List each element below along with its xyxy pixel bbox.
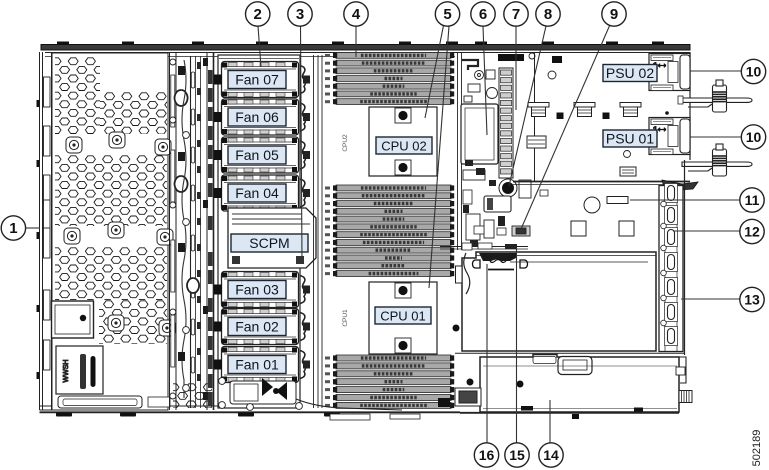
fan module Fan 03 (214, 272, 310, 308)
riser cable s-curve (464, 253, 470, 294)
leader 7 (515, 26, 517, 110)
fan module Fan 05 (214, 137, 310, 173)
extra dark mid bits (463, 160, 517, 249)
leader 1 (26, 227, 40, 229)
left wall slot rects (44, 77, 51, 370)
front panel cable connectors bottom (230, 381, 296, 404)
bay divider line (455, 352, 684, 354)
leader 13 (681, 298, 740, 300)
board right edge (458, 53, 462, 250)
L bracket right (676, 357, 686, 383)
mid-right board hole (584, 197, 600, 213)
leader 10b (690, 136, 741, 138)
callout 9 (602, 2, 626, 26)
PSU 01 body and handle (649, 118, 690, 155)
callout 3 (288, 2, 312, 26)
fan tray outline (218, 55, 300, 408)
left wall nubs (37, 100, 40, 379)
callout 2 (246, 2, 270, 26)
tray bottom screws (219, 378, 303, 411)
callout 6 (471, 2, 495, 26)
riser latch (callout 16 target) (473, 253, 528, 270)
lower bay outline (480, 355, 679, 413)
square outlines (571, 221, 634, 236)
svg-text:16: 16 (479, 447, 495, 463)
rear connector rail (659, 186, 683, 352)
hex vent panel outline (52, 53, 168, 410)
supercap module (461, 104, 498, 164)
svg-text:9: 9 (610, 6, 618, 23)
svg-text:Fan 07: Fan 07 (235, 72, 279, 88)
vertical rail C (207, 53, 214, 410)
callout 8 (536, 2, 560, 26)
leader 12 (673, 230, 740, 232)
board left edge (314, 55, 323, 408)
mid column lower parts (463, 170, 531, 240)
lower bay top tab (533, 357, 592, 375)
bottom cable line (296, 399, 402, 410)
svg-text:CPU 01: CPU 01 (380, 309, 426, 324)
SCPM module (228, 208, 316, 268)
riser bay inner line (510, 261, 648, 263)
fan module Fan 04 (214, 175, 310, 211)
bowtie latches (262, 378, 287, 400)
fan module Fan 01 (214, 347, 310, 383)
cable D-loops (175, 90, 200, 293)
PSU 01 label (603, 130, 657, 147)
lower-left bracket box (52, 301, 94, 338)
chassis top band (41, 45, 690, 51)
leader 15 (516, 248, 518, 443)
board bottom edge above riser (440, 247, 528, 250)
mid column top connectors (498, 54, 562, 63)
PSU 02 body and handle (649, 54, 690, 91)
callout 15 (505, 443, 529, 467)
fan module Fan 02 (214, 309, 310, 345)
callout 4 (344, 2, 368, 26)
svg-text:7: 7 (512, 6, 520, 23)
bottom feet (56, 413, 340, 417)
leader 11 (630, 199, 740, 201)
svg-text:CPU2: CPU2 (342, 134, 349, 152)
svg-text:8: 8 (544, 6, 552, 23)
chassis outer wall (40, 52, 53, 410)
top edge tabs (57, 42, 664, 45)
lower bay inner details (483, 366, 677, 409)
svg-text:13: 13 (744, 292, 760, 308)
svg-text:Fan 03: Fan 03 (235, 282, 279, 298)
leader 9 (521, 24, 611, 230)
svg-text:5: 5 (443, 6, 451, 23)
svg-text:1: 1 (9, 220, 17, 237)
chassis right edge lower (684, 160, 686, 355)
svg-text:502189: 502189 (751, 430, 763, 467)
svg-text:PSU 01: PSU 01 (606, 131, 654, 147)
svg-text:Fan 01: Fan 01 (235, 357, 279, 373)
leader 4 (355, 26, 357, 57)
mid column misc small parts (464, 70, 498, 102)
board bottom bits (330, 414, 420, 420)
svg-text:CPU1: CPU1 (342, 309, 349, 327)
callout 1 (1, 216, 25, 240)
fan module Fan 06 (214, 99, 310, 135)
cage screw (529, 53, 556, 79)
CPU heatsink CPU 02 (369, 107, 437, 176)
hex vent pattern (51, 58, 222, 408)
svg-text:SCPM: SCPM (249, 235, 289, 251)
rail tick marks (197, 62, 201, 381)
CPU heatsink CPU 01 (369, 282, 437, 354)
svg-text:15: 15 (509, 447, 525, 463)
callout 10 (741, 125, 765, 149)
svg-text:10: 10 (746, 64, 762, 80)
ribbed connector right (679, 391, 692, 403)
PSU 02 label (603, 65, 657, 82)
callout 7 (504, 2, 528, 26)
callout 13 (740, 287, 764, 311)
callout 10 (741, 59, 765, 83)
DIMM bank top (CPU2) (325, 53, 454, 105)
riser bay screw (453, 325, 460, 332)
PSU cage spring clips (528, 103, 549, 117)
svg-text:4: 4 (352, 6, 361, 23)
motor round component (499, 179, 517, 197)
rail B slots (191, 72, 194, 373)
DIMM bank bottom (CPU1) (325, 355, 454, 408)
callout 14 (539, 443, 563, 467)
rail small black bits (178, 58, 208, 400)
callout 11 (740, 188, 764, 212)
small rear items (676, 367, 685, 375)
vertical ladder connector (499, 68, 513, 178)
leader 6 (483, 26, 487, 135)
rail cable wavy line (182, 60, 186, 398)
leader 5a (425, 26, 444, 119)
leader 10a (690, 70, 741, 72)
svg-text:Fan 02: Fan 02 (235, 319, 279, 335)
callout 16 (474, 443, 498, 467)
lower bay bottom edge (460, 412, 679, 414)
hex panel screws row1 (66, 137, 82, 153)
chassis right top corner (689, 52, 691, 160)
latch lever near divider (662, 180, 698, 191)
chassis bottom edge (40, 406, 461, 412)
svg-text:12: 12 (744, 224, 760, 240)
front-left bottom bar (58, 396, 170, 408)
leader 8 (509, 26, 546, 186)
PSU cage divider bottom (513, 182, 690, 185)
rail oval slots (665, 184, 678, 346)
rail screws (170, 59, 190, 399)
leader 14 (549, 400, 551, 443)
hex panel screws row2 (64, 228, 80, 244)
clips black bits (557, 113, 610, 120)
DIMM bank middle (325, 185, 454, 277)
WWSH module (56, 346, 103, 394)
svg-text:Fan 06: Fan 06 (235, 109, 279, 125)
svg-text:6: 6 (479, 6, 487, 23)
svg-text:PSU 02: PSU 02 (606, 65, 654, 81)
svg-text:3: 3 (296, 6, 304, 23)
board small parts left (463, 190, 548, 235)
leader 3 (301, 26, 303, 262)
battery cylinder (484, 196, 511, 212)
hex panel screws row3 (108, 315, 124, 331)
vertical rail B (191, 56, 201, 408)
svg-text:CPU 02: CPU 02 (381, 139, 427, 154)
PSU cage left wall (534, 53, 536, 182)
leader 2 (258, 26, 261, 67)
hole below PSU01 (624, 151, 631, 158)
upper riser bay (456, 252, 657, 351)
small bits between PSUs (665, 96, 683, 115)
connector target of callout 9 (512, 226, 530, 236)
svg-text:Fan 04: Fan 04 (235, 185, 279, 201)
callout 12 (740, 219, 764, 243)
mid column bracket cable (462, 60, 478, 70)
svg-text:WWSH: WWSH (63, 360, 70, 383)
svg-text:2: 2 (254, 6, 262, 23)
callout 5 (435, 2, 459, 26)
svg-text:11: 11 (745, 192, 760, 208)
small parts above riser (462, 243, 492, 250)
fan module Fan 07 (214, 62, 310, 98)
svg-text:10: 10 (746, 129, 762, 145)
leader 16 (486, 264, 488, 443)
bottom mid connector cluster (455, 388, 481, 406)
header target of callout 11 (607, 197, 628, 204)
spring clip below PSU01 (620, 167, 636, 176)
svg-text:14: 14 (543, 447, 559, 463)
leader 5b (429, 26, 449, 288)
svg-text:Fan 05: Fan 05 (235, 147, 279, 163)
vertical rail A (170, 53, 177, 410)
